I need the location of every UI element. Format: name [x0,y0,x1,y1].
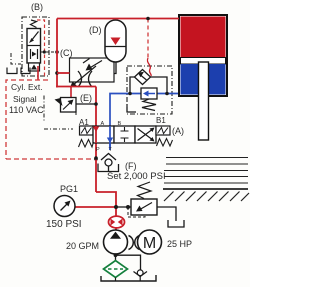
throttle arcs of C [78,71,82,87]
bypass check valve [137,270,143,276]
tank under ball check [98,164,119,172]
wire: black tee to relief [116,206,131,208]
svg-text:(B): (B) [31,2,43,12]
node pilot [126,205,130,209]
relief valve F box [131,199,157,215]
node top red [146,17,150,21]
svg-text:(D): (D) [89,25,102,35]
pump [104,230,128,254]
pump suction line [115,254,117,262]
motor [138,230,162,254]
wire: red through box1 [95,126,97,143]
check valve diamond [135,70,151,85]
valve A solenoid A1 [80,126,94,135]
svg-text:M: M [143,235,156,252]
valve B top-section arrow [31,32,39,42]
bypass line left [130,77,135,94]
svg-text:B1: B1 [156,116,166,125]
valve A body box2 center [114,126,135,143]
wire: red horizontal to main riser [56,86,96,88]
flow control C box [70,58,115,82]
relief valve F pilot dashes [128,207,145,217]
node blue right [165,92,169,96]
bypass line right [151,77,168,94]
signal box bottom dashed to A1 [6,158,96,160]
wire: red pump outlet [115,227,117,231]
valve A body box3 [135,126,156,143]
valve A spring left [79,140,94,148]
node on red riser [55,50,59,54]
accumulator stem [114,62,116,74]
valve B exhaust box with triangle [29,63,40,71]
tank at relief outlet [168,220,184,227]
wire: red main riser [95,87,97,193]
check valve inside C [88,61,102,70]
dash-dot bracket [11,53,21,64]
accumulator gas triangle [111,38,121,46]
valve E drain stub [75,110,77,115]
pilot red curve [147,58,151,76]
enclosure box B (dash-dot) [22,17,49,76]
cylinder rod side blue [181,64,226,95]
tank symbol 2 [21,68,30,74]
svg-text:(A): (A) [172,126,184,136]
accumulator separator [106,46,126,48]
node at end of dashed [94,157,98,161]
svg-text:(C): (C) [60,48,73,58]
node E outlet [94,102,98,106]
counterbalance spring [142,99,156,111]
svg-text:(F): (F) [125,161,137,171]
accumulator D capsule [105,20,126,62]
filter stub [115,278,117,282]
signal box red dashed [6,80,48,159]
ball check under T [101,154,116,161]
wire: red to C box [57,72,70,74]
svg-text:25 HP: 25 HP [167,239,192,249]
valve B solenoid zigzag [31,20,37,28]
svg-text:(E): (E) [80,93,92,103]
svg-text:150 PSI: 150 PSI [46,219,82,230]
node tee [114,205,118,209]
pilot red dashed from top line [147,19,149,59]
node C junction [55,71,59,75]
svg-text:Set 2,000 PSI: Set 2,000 PSI [107,171,166,182]
relief valve F spring [138,182,152,199]
bypass line to check [116,255,141,270]
valve A solenoid B1 [156,126,170,135]
ground line [163,188,248,190]
valve A body box1 [93,126,114,143]
relief valve F arrow [139,203,152,211]
piston rod [199,62,209,140]
svg-text:PG1: PG1 [60,184,78,194]
throttle arrow of C [73,66,96,85]
blue arrow in square [146,93,155,95]
valve B body [27,29,41,64]
valve E outlet line [76,103,96,105]
wire: red left riser [56,19,58,88]
wire: red gauge line [75,206,116,208]
cylinder body [179,15,227,96]
node red at T branch [94,156,98,160]
counterbalance enclosure dash-dot [127,66,172,114]
valve E box [61,98,77,113]
tank line bottom [101,275,156,281]
wire: blue line B port [110,94,179,151]
coupling [129,236,134,250]
valve A spring right [157,139,173,147]
cylinder cap side red [181,17,226,58]
svg-text:Signal: Signal [13,94,37,104]
wire: red jog [96,192,116,216]
valve E enclosure dash-dot [44,96,73,130]
ground hatching [164,192,249,202]
svg-text:110 VAC: 110 VAC [9,105,44,115]
wire: blue through box1 [109,126,111,150]
svg-text:P: P [96,147,100,153]
node blue left [128,92,132,96]
cylinder piston [181,58,226,65]
svg-text:20 GPM: 20 GPM [66,241,99,251]
check valve red (pump outlet) [109,216,125,228]
pilot dash line valve B to main line [41,51,57,53]
valve E internal arrow [63,101,72,110]
gauge PG1 [54,196,75,217]
relief outlet pipe [157,207,176,221]
valve E adjust arrowhead [55,98,63,106]
drain bracket [127,104,136,112]
tank symbol left of valve B [7,68,17,74]
wire: red from valve B bottom [37,66,39,80]
svg-text:Cyl. Ext.: Cyl. Ext. [11,82,43,92]
valve B bottom-section marks [30,49,32,59]
node on pilot dash [43,50,46,53]
press stack lines [166,157,248,159]
wire: main red pressure line top [57,18,179,20]
counterbalance valve square [141,88,157,99]
strainer filter green [104,261,128,278]
wire: red stub to valve E [70,87,72,98]
node suction [114,253,118,257]
wire: red dashed signal inside enclosure [37,20,45,77]
